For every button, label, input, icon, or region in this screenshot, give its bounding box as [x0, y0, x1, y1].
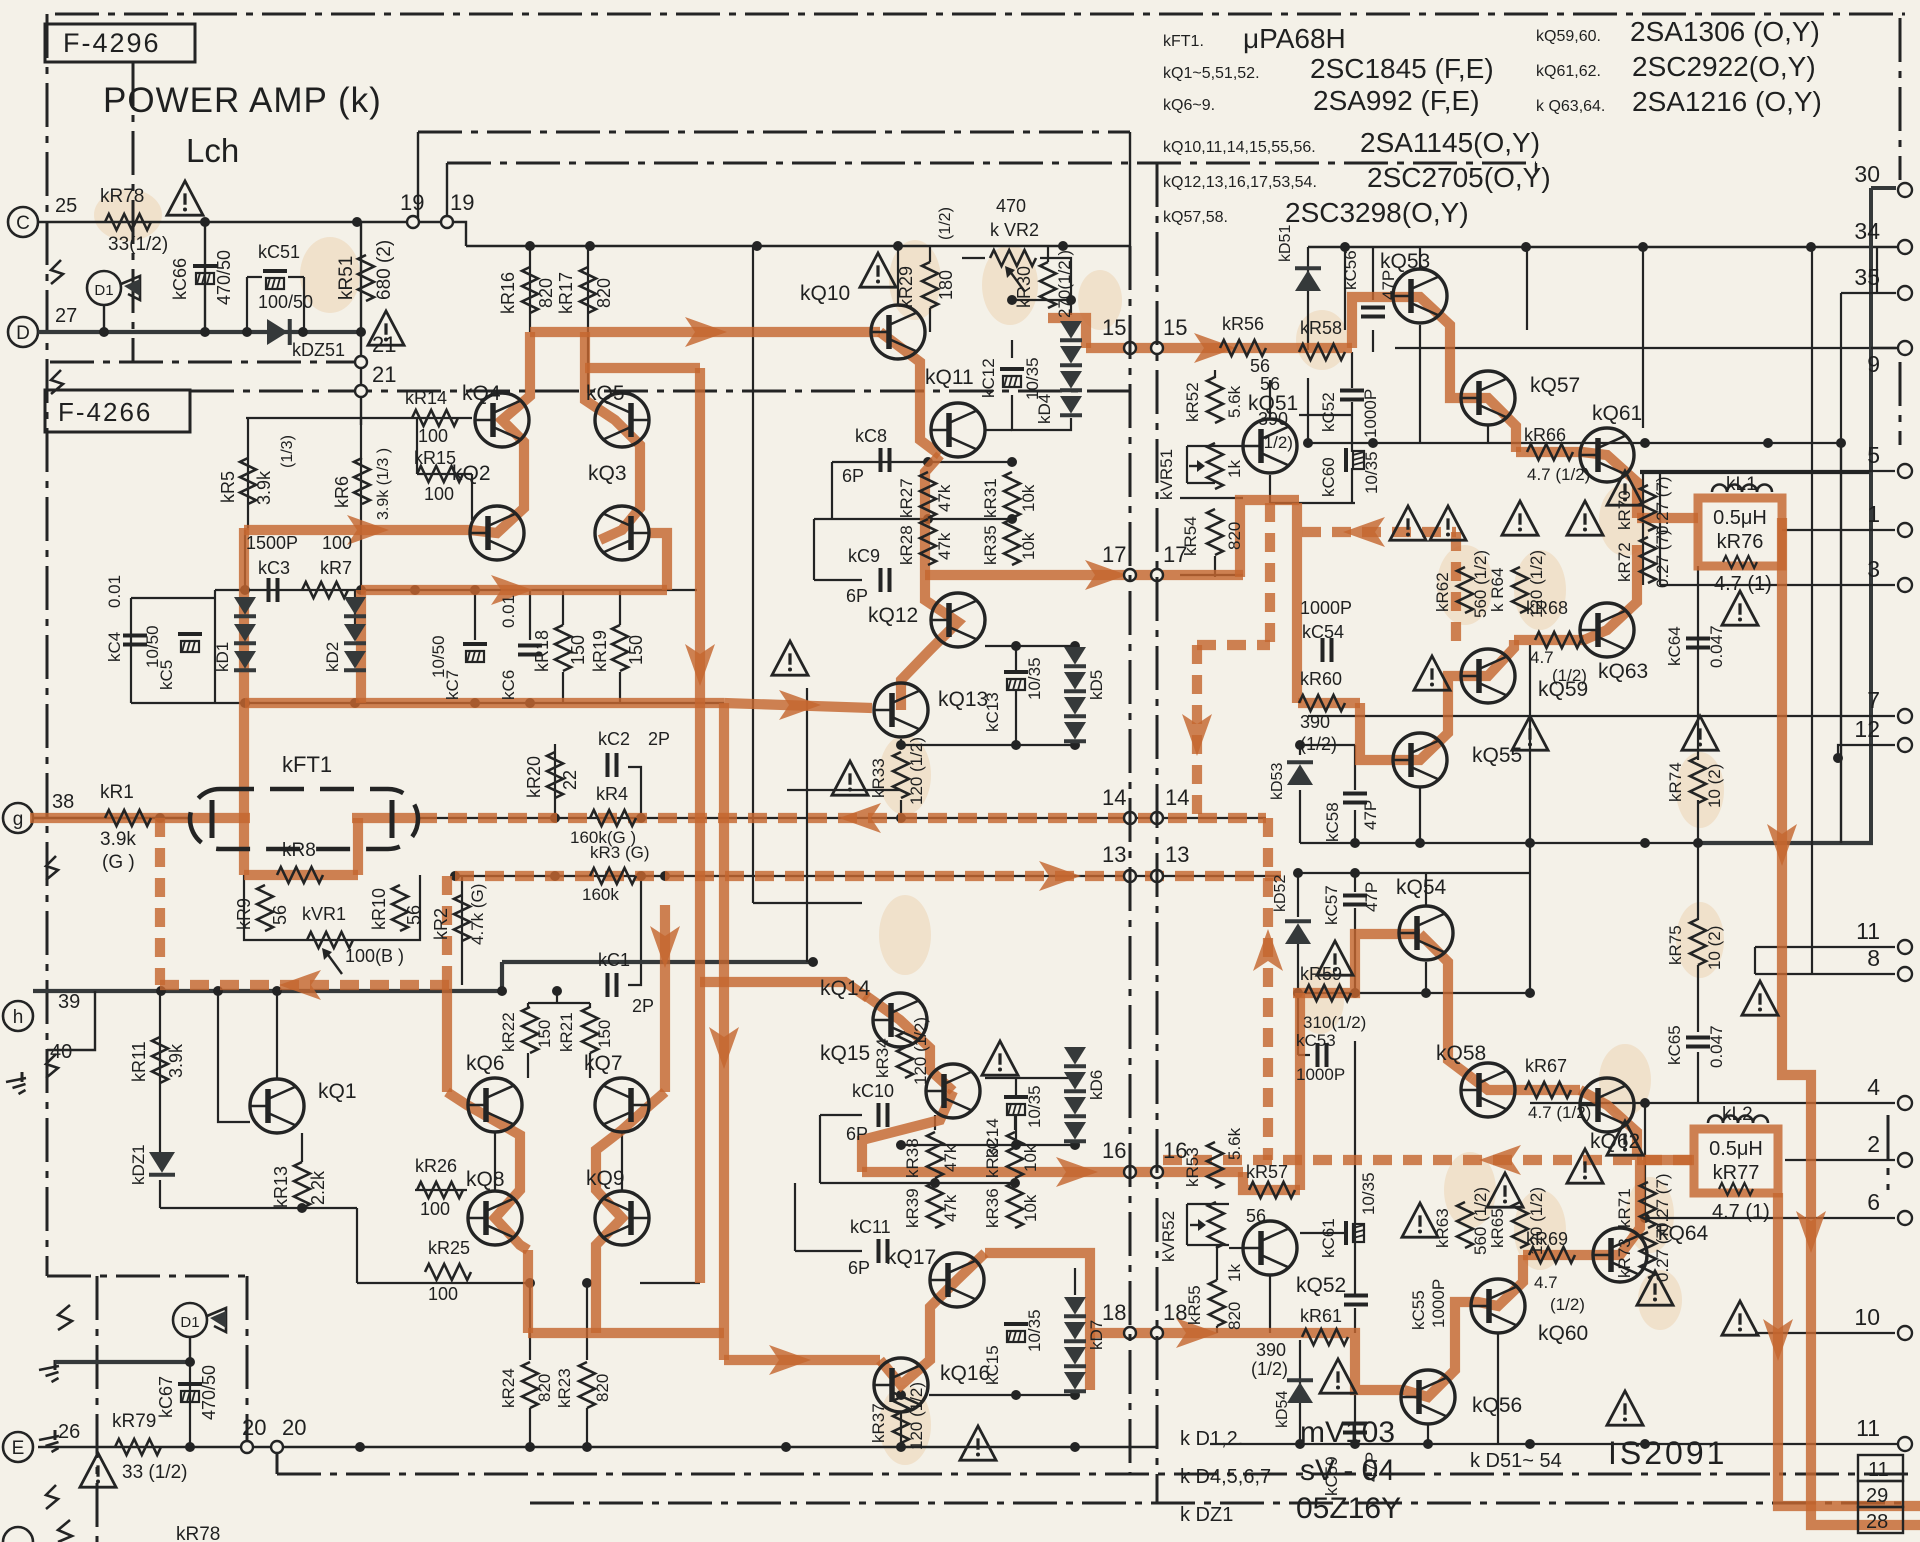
svg-text:kR17: kR17 [556, 272, 576, 314]
svg-text:390: 390 [1256, 1340, 1286, 1360]
svg-text:POWER AMP (k): POWER AMP (k) [103, 81, 382, 120]
orange kL1 right rail [1782, 518, 1920, 1525]
connector 5 circle [1898, 464, 1912, 478]
svg-text:26: 26 [58, 1421, 80, 1443]
svg-text:100: 100 [418, 426, 448, 446]
orange kFT1 right col [353, 818, 363, 875]
svg-text:kR4: kR4 [596, 784, 628, 804]
diode D1 flag [121, 276, 140, 300]
svg-text:6P: 6P [842, 466, 864, 486]
wire row 993 mid [1298, 992, 1530, 994]
zener kDZ1 [149, 1152, 175, 1173]
wire kR14-15 left [416, 418, 418, 474]
svg-text:kFT1: kFT1 [282, 752, 332, 777]
warning triangle [1502, 501, 1538, 535]
svg-text:0.27 (7): 0.27 (7) [1653, 529, 1672, 588]
resistor kR59 [1305, 985, 1351, 1001]
junction [552, 986, 562, 996]
svg-text:kC52: kC52 [1319, 392, 1338, 432]
svg-text:100/50: 100/50 [258, 292, 313, 312]
transistor kQ4 [475, 393, 529, 447]
orange row 15 start [1048, 318, 1086, 348]
junction [297, 1203, 307, 1213]
wire kVR51 frameB [1187, 482, 1215, 484]
svg-text:38: 38 [52, 791, 74, 813]
wire kC52 col [1351, 352, 1353, 388]
resistor kR35 [1004, 519, 1020, 565]
svg-text:47k: 47k [941, 1144, 960, 1172]
wire kR24 col [529, 1283, 531, 1360]
svg-text:kR76: kR76 [1717, 531, 1764, 553]
svg-text:19: 19 [400, 190, 424, 215]
wire col 1645 kQ63 [1642, 473, 1644, 585]
svg-text:kL1: kL1 [1726, 474, 1757, 495]
connector box 28 [1858, 1507, 1903, 1533]
wire kC51 box top2 [288, 276, 304, 278]
wire C row [38, 221, 447, 223]
orange kQ5 riser [585, 332, 640, 540]
svg-text:150: 150 [626, 635, 646, 665]
svg-text:kQ14: kQ14 [820, 977, 871, 1000]
junction [1640, 1098, 1650, 1108]
wire row 843 dark [1698, 841, 1873, 845]
svg-text:D1: D1 [180, 1314, 199, 1331]
svg-text:47k: 47k [935, 532, 954, 560]
wire E row [38, 1446, 1157, 1448]
svg-text:kQ52: kQ52 [1296, 1274, 1346, 1297]
resistor kR69 [1529, 1247, 1575, 1263]
svg-text:kR13: kR13 [271, 1166, 291, 1208]
wire kVR2 row [962, 257, 985, 259]
wire kR32 col [1014, 1115, 1016, 1130]
orange kQ64 [1588, 1160, 1640, 1255]
junction [350, 698, 360, 708]
junction [896, 813, 906, 823]
junction [582, 1278, 592, 1288]
svg-text:19: 19 [450, 190, 474, 215]
svg-text:56: 56 [1250, 356, 1270, 376]
warning triangle [1607, 471, 1643, 505]
warning triangle [368, 311, 404, 345]
pot wiper kVR52w [1190, 1224, 1204, 1226]
board inner divider [1129, 246, 1132, 1474]
smudge [94, 189, 162, 241]
ground sym E lower [54, 1430, 57, 1440]
right border low dashdot [1899, 362, 1902, 445]
connector 7 circle [1898, 709, 1912, 723]
orange col 724 [719, 703, 729, 1360]
svg-text:kR56: kR56 [1222, 314, 1264, 334]
svg-text:1000P: 1000P [1361, 389, 1380, 438]
wire kVR52 frame [1186, 1204, 1188, 1245]
connector box 11 [1858, 1455, 1903, 1481]
svg-text:k Q63,64.: k Q63,64. [1536, 98, 1605, 115]
svg-text:kC67: kC67 [156, 1376, 176, 1418]
svg-text:kR55: kR55 [1185, 1285, 1204, 1325]
wire kD52 bot [1297, 944, 1299, 993]
junction [1070, 1442, 1080, 1452]
svg-text:22: 22 [560, 770, 580, 790]
node 20 circle [271, 1441, 283, 1453]
svg-text:39: 39 [58, 991, 80, 1013]
node 16 circle [1151, 1166, 1163, 1178]
svg-text:5.6k: 5.6k [1225, 1127, 1244, 1160]
inductor kL2 box [1694, 1129, 1778, 1193]
smudge [1599, 1044, 1651, 1116]
svg-text:g: g [13, 809, 24, 830]
wire 8 row [1755, 973, 1895, 975]
label box F-4296 [45, 24, 195, 62]
orange col 700 [695, 368, 705, 1283]
connector 30 circle [1898, 183, 1912, 197]
svg-text:kR74: kR74 [1666, 762, 1685, 802]
svg-text:820: 820 [1225, 1302, 1244, 1330]
wire D1b stem [189, 1338, 191, 1362]
junction [99, 327, 109, 337]
diode kD53 [1287, 764, 1313, 785]
svg-text:F-4296: F-4296 [63, 28, 161, 58]
orange kQ61 diag [1582, 452, 1637, 518]
junction [923, 514, 933, 524]
svg-text:16: 16 [1102, 1138, 1126, 1163]
junction [1423, 1439, 1433, 1449]
warning triangle [1567, 1149, 1603, 1183]
svg-text:kC2: kC2 [598, 729, 630, 749]
capacitor kC4 [123, 634, 147, 638]
junction [525, 698, 535, 708]
svg-text:100: 100 [428, 1284, 458, 1304]
wire kR11 col [159, 991, 161, 1152]
svg-text:820: 820 [1225, 522, 1244, 550]
junction [893, 241, 903, 251]
svg-text:3: 3 [1867, 556, 1880, 582]
svg-text:2P: 2P [648, 729, 670, 749]
warning triangle [1402, 1203, 1438, 1237]
svg-text:820: 820 [535, 1374, 554, 1402]
junction [1011, 641, 1021, 651]
svg-text:40: 40 [50, 1041, 72, 1063]
wire col 1527 top [1526, 247, 1528, 330]
svg-text:kQ13: kQ13 [938, 688, 988, 711]
wire kR22 col [527, 1003, 529, 1008]
smudge [879, 895, 931, 975]
wire row503 [1270, 502, 1355, 504]
junction [1806, 242, 1816, 252]
wire kR21 bot [589, 1053, 591, 1078]
svg-text:kQ17: kQ17 [886, 1246, 936, 1269]
svg-text:470/50: 470/50 [214, 250, 234, 305]
resistor kR5 [240, 458, 256, 504]
svg-text:10k: 10k [1021, 1144, 1040, 1172]
wire kR6 branch [360, 417, 362, 590]
resistor kR2 [454, 895, 470, 941]
junction [1293, 988, 1303, 998]
warning triangle [982, 1041, 1018, 1075]
svg-text:kR57: kR57 [1246, 1162, 1288, 1182]
svg-text:kR72: kR72 [1615, 542, 1634, 582]
pot wiper kVR1w [326, 952, 342, 974]
orange kQ6 feed [442, 985, 452, 1092]
svg-text:kR37: kR37 [869, 1403, 888, 1443]
board border left lower [96, 1276, 99, 1542]
svg-text:2SC3298(O,Y): 2SC3298(O,Y) [1285, 197, 1469, 228]
resistor kR30 [1040, 262, 1056, 308]
orange col 1456 dashed [1451, 532, 1461, 645]
capacitor kC5 [178, 632, 202, 636]
warning triangle [1682, 716, 1718, 750]
svg-text:kR65: kR65 [1488, 1208, 1507, 1248]
junction [1350, 988, 1360, 998]
label box F-4266 [45, 390, 190, 432]
junction [1011, 1390, 1021, 1400]
wire col 357 [356, 1208, 358, 1283]
junction [896, 1140, 906, 1150]
wire 35 row [1841, 292, 1896, 294]
svg-text:14: 14 [1102, 785, 1126, 810]
wire kR22-21 top bracket [528, 1002, 590, 1004]
svg-text:kC11: kC11 [850, 1217, 891, 1237]
orange kR69 row [1523, 1250, 1588, 1260]
orange arrow rail2 [1763, 1319, 1793, 1361]
wire row 1208 [160, 1207, 357, 1209]
svg-text:6: 6 [1867, 1189, 1880, 1215]
wire 4 row [1530, 1102, 1895, 1104]
svg-text:kR75: kR75 [1666, 925, 1685, 965]
node 13 circle [1151, 870, 1163, 882]
resistor kR27 [920, 472, 936, 518]
smudge [1599, 484, 1651, 556]
orange g input [30, 813, 192, 823]
wire kD52 col [1297, 873, 1299, 917]
connector 1 circle [1898, 523, 1912, 537]
svg-text:E: E [12, 1438, 25, 1459]
orange kQ59 diag [1462, 640, 1514, 676]
wire kC11 box [794, 1183, 796, 1251]
wire 40 stub [47, 991, 95, 1050]
board F-4296 left border [132, 62, 135, 362]
resistor kR74 [1690, 757, 1706, 803]
wire kQ14 row 1078 [985, 1077, 1075, 1079]
svg-text:4.7k (G): 4.7k (G) [468, 884, 487, 945]
resistor kR56 [1220, 340, 1266, 356]
svg-text:kVR52: kVR52 [1159, 1211, 1178, 1262]
junction [1350, 868, 1360, 878]
junction [185, 1357, 195, 1367]
svg-text:kR2: kR2 [431, 908, 451, 940]
svg-text:C: C [16, 213, 30, 234]
svg-text:kC58: kC58 [1323, 802, 1342, 842]
diode kD51 [1295, 270, 1321, 291]
junction [470, 585, 480, 595]
orange row 703 [245, 698, 724, 708]
wire kR22 bot [527, 1053, 529, 1078]
wire row 903 [753, 902, 862, 904]
node 17 circle [1151, 569, 1163, 581]
junction [242, 327, 252, 337]
svg-text:kC9: kC9 [848, 546, 880, 566]
svg-text:100: 100 [424, 484, 454, 504]
wire kC10 lead [820, 1114, 862, 1116]
wire kC55 col [1354, 1041, 1356, 1295]
smudge [1514, 1190, 1566, 1270]
wire kC53 colL [1297, 993, 1299, 1055]
orange row 1333 [528, 1328, 724, 1338]
wire kQ11-kC12 row [985, 429, 1012, 431]
wire kC8 box [831, 462, 833, 519]
wire right top rail [1308, 246, 1900, 248]
capacitor kC2 [606, 753, 610, 777]
svg-text:13: 13 [1102, 842, 1126, 867]
svg-text:10k: 10k [1019, 484, 1038, 512]
svg-text:kQ7: kQ7 [584, 1052, 623, 1075]
svg-text:kDZ1: kDZ1 [129, 1144, 148, 1185]
orange col 1270 dashed [1265, 503, 1275, 645]
svg-text:2.2k: 2.2k [308, 1170, 328, 1205]
transistor kQ10 [871, 305, 925, 359]
resistor kR62 [1457, 567, 1473, 613]
resistor kR11 [152, 1037, 168, 1083]
junction [781, 1442, 791, 1452]
inner box right vertical [1129, 132, 1131, 246]
squiggle E top [58, 1305, 72, 1330]
resistor kR16 [522, 267, 538, 313]
svg-text:150: 150 [568, 635, 588, 665]
capacitor kC54 [1321, 638, 1325, 662]
svg-text:(1/2): (1/2) [1552, 666, 1587, 685]
wire kC55 colB [1354, 1308, 1356, 1333]
orange arrow feedback [279, 970, 321, 1000]
orange row 590 [361, 585, 667, 595]
diode string kD1 [234, 597, 256, 615]
resistor kR25 [425, 1264, 471, 1280]
svg-text:IS2091: IS2091 [1608, 1435, 1727, 1471]
resistor kR15 [417, 466, 463, 482]
wire kQ52 base [1229, 1247, 1243, 1249]
resistor kR60 [1299, 695, 1345, 711]
warning triangle [832, 761, 868, 795]
transistor kQ3 [595, 506, 649, 560]
orange col 1197 dashed [1192, 645, 1202, 818]
svg-text:kR63: kR63 [1433, 1208, 1452, 1248]
resistor kR20 [547, 752, 563, 798]
capacitor kC10 [877, 1103, 881, 1127]
orange row 645 dashed [1197, 640, 1270, 650]
svg-text:kR71: kR71 [1615, 1188, 1634, 1228]
capacitor kC61 [1344, 1221, 1348, 1245]
smudge [1437, 545, 1493, 625]
wire kD4 col top [1070, 300, 1072, 315]
svg-text:kR28: kR28 [897, 525, 916, 565]
wire row 1145 [901, 1144, 1075, 1146]
right section border vertical [1535, 163, 1537, 172]
svg-text:kR77: kR77 [1713, 1162, 1760, 1184]
svg-text:2SC2705(O,Y): 2SC2705(O,Y) [1367, 162, 1551, 193]
svg-text:kC53: kC53 [1296, 1031, 1336, 1050]
svg-text:470/50: 470/50 [199, 1365, 219, 1420]
smudge [1676, 902, 1724, 978]
junction [1836, 438, 1846, 448]
node 19 circle [407, 216, 419, 228]
junction [356, 327, 366, 337]
wire kQ54 bot [1425, 962, 1427, 993]
wire kC61 lead [1300, 1232, 1344, 1234]
svg-text:kR15: kR15 [414, 448, 456, 468]
orange kQ8 col [523, 1250, 533, 1333]
wire kQ7 kQ9 col [621, 1133, 623, 1190]
svg-text:kVR51: kVR51 [1157, 449, 1176, 500]
junction [298, 327, 308, 337]
svg-text:180: 180 [936, 270, 956, 300]
svg-text:270(1/2 ): 270(1/2 ) [1055, 250, 1074, 318]
wire mid col 753 [752, 246, 754, 903]
wire kC51 box right [303, 277, 305, 332]
terminal D [8, 317, 38, 347]
wire kC59 col [1354, 1395, 1356, 1444]
wire kR30 top [1047, 246, 1049, 262]
transistor kQ64 [1593, 1228, 1647, 1282]
svg-text:29: 29 [1866, 1485, 1888, 1507]
wire kD53 bot [1299, 790, 1301, 843]
wire kC12-kD4 row bot [1012, 395, 1071, 430]
transistor kQ14 [873, 993, 927, 1047]
orange kQ16 feed [724, 1355, 880, 1365]
wire col kD51 [1307, 247, 1309, 350]
wire kC12-kD4 row top [1012, 299, 1071, 301]
transistor kQ53 [1393, 269, 1447, 323]
svg-text:1k: 1k [1225, 460, 1244, 478]
svg-text:150: 150 [535, 1020, 554, 1048]
svg-text:820: 820 [536, 278, 556, 308]
resistor kR67 [1525, 1082, 1571, 1098]
svg-text:kVR1: kVR1 [302, 904, 346, 924]
svg-text:kQ5: kQ5 [586, 382, 625, 405]
resistor kR36 [1007, 1182, 1023, 1228]
svg-text:kQ12: kQ12 [868, 604, 918, 627]
node 14 circle [1124, 812, 1136, 824]
wire 30 conn [1869, 188, 1873, 843]
wire 11 row [1755, 946, 1895, 948]
svg-text:47k: 47k [941, 1194, 960, 1222]
capacitor kC59 [1343, 1422, 1367, 1426]
svg-text:kR62: kR62 [1433, 572, 1452, 612]
svg-text:kQ9: kQ9 [586, 1167, 625, 1190]
wire kR38 col [934, 1115, 936, 1130]
orange kR59 row [1293, 934, 1420, 993]
warning triangle [1430, 506, 1466, 540]
orange col 1266 dashed [1263, 818, 1273, 1160]
svg-text:25: 25 [55, 195, 77, 217]
orange arrow 530 [347, 515, 389, 545]
wire kR2 col [461, 876, 463, 985]
svg-text:kC12: kC12 [979, 358, 998, 398]
wire kC60 colB [1351, 468, 1353, 503]
wire mid row 703 [131, 702, 724, 704]
wire box kC45 left [130, 598, 132, 703]
svg-text:1500P: 1500P [246, 533, 298, 553]
resistor kR57 [1249, 1182, 1295, 1198]
junction [660, 871, 670, 881]
wire col 1345 [1344, 247, 1346, 330]
svg-text:10k: 10k [1021, 1194, 1040, 1222]
junction [1640, 1439, 1650, 1449]
svg-text:D1: D1 [94, 282, 113, 299]
wire kD54 col [1299, 1340, 1301, 1444]
svg-text:28: 28 [1866, 1511, 1888, 1533]
wire kQ1 base col [218, 991, 250, 1122]
junction [752, 241, 762, 251]
resistor kR32 [1007, 1132, 1023, 1178]
connector 3 circle [1898, 578, 1912, 592]
